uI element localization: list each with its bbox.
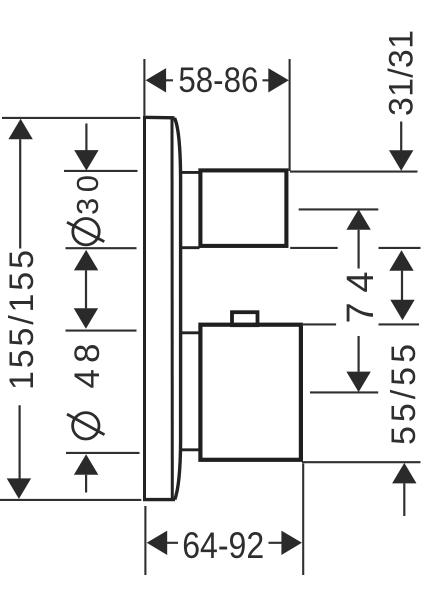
diameter symbol of Ø48 xyxy=(67,413,105,439)
lower handle knob xyxy=(200,325,301,460)
upper handle sleeve xyxy=(180,172,199,247)
svg-text:58-86: 58-86 xyxy=(178,60,258,100)
dimension 155/155 leaders xyxy=(19,139,22,479)
dimension Ø48 bottom arrow and leader xyxy=(74,454,98,475)
svg-text:64-92: 64-92 xyxy=(182,524,264,566)
dimension 64-92 arrows xyxy=(147,531,302,555)
extension line upper knob bottom (right) xyxy=(290,247,420,249)
lower handle sleeve xyxy=(181,333,200,450)
dimension Ø48 top arrow xyxy=(74,308,98,329)
dimension Ø30 top arrow and leader xyxy=(85,124,87,151)
select button on lower knob xyxy=(232,312,258,325)
extension line upper knob top (left) xyxy=(64,170,138,172)
dimension 55/55 bottom arrow and leader xyxy=(392,463,416,484)
upper handle knob xyxy=(200,170,286,246)
dimension 55/55 top arrow xyxy=(390,300,414,321)
dimension 58-86 arrows xyxy=(146,68,289,92)
extension line lower knob top (right) xyxy=(301,323,419,325)
extension line lower knob bottom (right) xyxy=(302,461,421,463)
extension line lower knob axis (right) xyxy=(310,391,378,393)
dimension Ø30 bottom arrow xyxy=(74,250,98,271)
dimension 31/31 bottom arrow xyxy=(389,250,413,270)
extension line lower sleeve bottom (left) xyxy=(66,452,140,454)
shared leader between Ø30 and Ø48 arrows xyxy=(85,270,87,308)
extension line upper knob bottom (left) xyxy=(66,247,137,249)
escutcheon plate side view xyxy=(143,116,181,501)
extension line lower sleeve top (left) xyxy=(66,330,137,332)
dimension 31/31 leader and arrow xyxy=(400,122,402,151)
diameter symbol of Ø30 xyxy=(67,219,104,245)
dimension 58-86 stubs xyxy=(166,79,269,81)
shared leader between 31/31 and 55/55 arrows xyxy=(401,271,403,300)
extension line plate top (left) xyxy=(2,117,140,119)
extension line plate bottom (left) xyxy=(0,499,141,501)
dimension 64-92 stubs xyxy=(167,542,282,544)
svg-text:55/55: 55/55 xyxy=(385,344,423,445)
extension line upper knob axis (right) xyxy=(299,208,379,210)
dimension 155/155 arrows xyxy=(7,119,33,499)
extension line upper knob top (right) xyxy=(290,171,418,173)
dimension 64-92 extension lines xyxy=(145,464,303,576)
dimension 74 bottom leader and arrow xyxy=(358,336,360,372)
dimension 74 top arrow and leader xyxy=(346,209,370,230)
svg-text:31/31: 31/31 xyxy=(383,30,421,116)
dimension 58-86 extension lines xyxy=(144,59,289,171)
